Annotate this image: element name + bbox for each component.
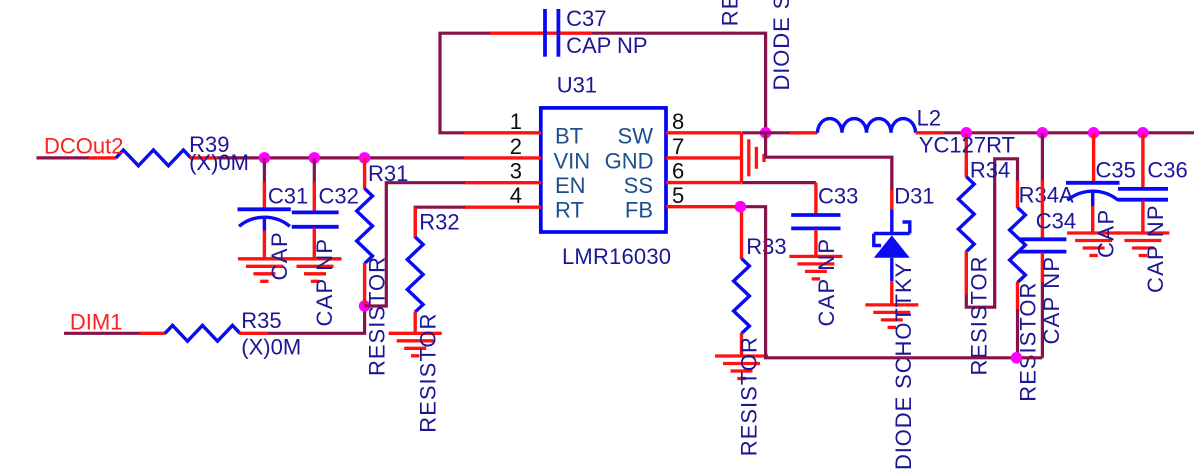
svg-text:D31: D31 — [894, 184, 934, 209]
pin lead: L2 right — [916, 131, 944, 134]
pin lead: L2 left — [790, 131, 818, 134]
pin lead: R35 left pin — [139, 332, 165, 335]
svg-text:VIN: VIN — [554, 148, 591, 173]
svg-text:5: 5 — [672, 183, 684, 208]
pin lead: R34 bottom — [965, 251, 968, 295]
svg-text:CAP NP: CAP NP — [566, 33, 648, 58]
svg-text:8: 8 — [672, 109, 684, 134]
capacitor C32 plates — [292, 210, 339, 214]
resistor R39 zigzag — [116, 150, 191, 166]
svg-text:C36: C36 — [1147, 157, 1187, 182]
svg-text:RESISTOR: RESISTOR — [718, 0, 743, 26]
svg-text:EN: EN — [555, 173, 586, 198]
wire: FB dot right and down to bottom rail — [740, 207, 1042, 358]
junction dot: bottom rail / R34A — [1011, 352, 1023, 364]
wire: C34 stub from rail — [1041, 133, 1044, 181]
pin lead: C36 bottom — [1141, 201, 1144, 232]
junction dot: rail / C35 — [1088, 127, 1100, 139]
svg-text:YC127RT: YC127RT — [919, 133, 1015, 158]
svg-text:C34: C34 — [1036, 209, 1076, 234]
wire: vertical from BT pin up to C37 rail — [440, 33, 491, 133]
svg-text:CAP: CAP — [1094, 208, 1119, 258]
svg-text:GND: GND — [605, 148, 654, 173]
pin lead: pin 4 RT — [464, 205, 541, 208]
ground symbol for D31 — [865, 305, 918, 328]
pin lead: pin 2 VIN — [464, 156, 541, 159]
svg-text:CAP: CAP — [267, 231, 292, 281]
pin lead: C31 top — [263, 182, 266, 209]
svg-text:BT: BT — [555, 123, 583, 148]
pin lead: D31 anode — [890, 281, 893, 304]
junction dot: FB node — [735, 201, 747, 213]
junction dot: VIN rail / C31 — [259, 152, 271, 164]
capacitor C34 plates — [1018, 237, 1066, 241]
resistor R34 zigzag — [958, 177, 974, 252]
wire: C32 stub from rail — [313, 158, 316, 184]
pin lead: C34 top — [1041, 180, 1044, 238]
svg-text:C32: C32 — [319, 184, 359, 209]
pin lead: R35 right pin — [239, 332, 267, 335]
svg-text:R34A: R34A — [1019, 183, 1074, 208]
wire: output rail right of L2 — [943, 131, 1194, 134]
junction dot: SW node — [760, 127, 772, 139]
svg-text:6: 6 — [672, 159, 684, 184]
resistor R33 zigzag — [734, 259, 750, 334]
wire: C34 bottom to rail end — [1041, 282, 1044, 358]
resistor R34A zigzag — [1010, 208, 1026, 283]
wire: DIM1 stub at y=333 — [64, 332, 140, 335]
junction dot: rail / R34 — [961, 127, 973, 139]
wire: D31 cathode stub — [890, 157, 893, 191]
ground symbol for C35 — [1067, 233, 1120, 256]
pin lead: C34 bottom — [1041, 253, 1044, 283]
capacitor C31 curved plate — [239, 217, 290, 226]
pin lead: pin 7 GND — [666, 156, 741, 159]
capacitor C36 plates — [1118, 187, 1168, 191]
op-amp/IC U31 box — [541, 108, 666, 232]
svg-text:7: 7 — [672, 134, 684, 159]
pin lead: R31 bottom — [363, 263, 366, 306]
pin lead: C35 top — [1092, 134, 1095, 184]
junction dot: rail / C36 — [1137, 127, 1149, 139]
pin lead: R31 top — [363, 158, 366, 189]
capacitor C35 curved plate — [1067, 191, 1118, 200]
wire: C31 stub from rail — [263, 158, 266, 184]
wire: DCOut2 stub at y=158 — [37, 156, 90, 159]
wire: EN pin to R31 bottom — [365, 183, 465, 306]
pin lead: pin 1 BT — [464, 131, 541, 134]
svg-text:R35: R35 — [241, 308, 281, 333]
pin lead: R33 bottom — [740, 333, 743, 355]
svg-text:C33: C33 — [818, 184, 858, 209]
wire: SS pin to C33 — [742, 181, 816, 184]
diode D31 (schottky, cathode up) — [874, 209, 910, 281]
ground symbol for C31 — [238, 259, 291, 282]
pin lead: C32 top — [313, 183, 316, 212]
svg-text:(X)0M: (X)0M — [189, 150, 249, 175]
pin lead: pin 5 FB — [666, 205, 740, 208]
junction dot: R31 bottom / EN / DIM1 — [359, 300, 371, 312]
svg-text:C37: C37 — [566, 6, 606, 31]
wire: pin8 to SW dot — [742, 131, 766, 134]
resistor R31 zigzag — [357, 189, 373, 264]
svg-text:CAP NP: CAP NP — [814, 238, 839, 327]
pin lead: pin 6 SS — [666, 181, 741, 184]
pin lead: R33 top — [740, 207, 743, 259]
pin lead: R32 top — [414, 207, 417, 237]
pin lead: R39 right pin — [190, 156, 217, 159]
svg-text:DIODE SCHOTTKY: DIODE SCHOTTKY — [891, 262, 916, 469]
svg-text:RESISTOR: RESISTOR — [1016, 282, 1041, 402]
wire: RT pin to R32 — [415, 207, 465, 238]
svg-text:(X)0M: (X)0M — [241, 335, 301, 360]
wire: R34 bottom bridge to R34A top — [966, 159, 1017, 307]
svg-text:SW: SW — [618, 123, 654, 148]
capacitor C35 inner stub — [1091, 192, 1094, 207]
svg-text:RT: RT — [555, 198, 584, 223]
wire: SW dot to L2 — [766, 131, 791, 134]
ground symbol at GND pin (rotated, bars vertical) — [742, 132, 765, 182]
pin lead: R34A top — [1016, 181, 1019, 209]
ground symbol for R33 — [715, 356, 768, 379]
ground symbol for C36 — [1116, 233, 1169, 256]
svg-text:DIM1: DIM1 — [70, 309, 123, 334]
ground symbol for C32 — [289, 259, 342, 282]
svg-text:RESISTOR: RESISTOR — [737, 336, 762, 456]
wire: from R35 to R31 bottom column — [267, 306, 364, 333]
svg-text:DIODE SCHOTTKY: DIODE SCHOTTKY — [769, 0, 794, 91]
svg-text:CAP NP: CAP NP — [1143, 204, 1168, 293]
svg-text:CAP NP: CAP NP — [1039, 256, 1064, 345]
svg-text:C35: C35 — [1096, 157, 1136, 182]
pin lead: C33 bottom — [814, 229, 817, 255]
pin lead: R34 top — [965, 134, 968, 177]
pin lead: C36 top — [1141, 134, 1144, 188]
svg-text:R32: R32 — [419, 210, 459, 235]
svg-text:CAP NP: CAP NP — [312, 238, 337, 327]
capacitor C31 top plate — [238, 207, 291, 211]
capacitor C33 plates — [791, 213, 840, 217]
pin lead: C37 left pin (red through plates) — [490, 32, 591, 35]
pin lead: C31 bottom — [263, 231, 266, 259]
svg-text:RESISTOR: RESISTOR — [416, 313, 441, 433]
svg-text:R34: R34 — [970, 158, 1010, 183]
svg-text:2: 2 — [510, 134, 522, 159]
svg-text:LMR16030: LMR16030 — [562, 244, 671, 269]
svg-text:FB: FB — [625, 198, 653, 223]
capacitor C31 inner stub — [263, 219, 266, 232]
resistor R35 zigzag — [165, 325, 240, 341]
inductor L2 — [818, 119, 916, 133]
wire: R34A bottom to rail dot — [1016, 309, 1019, 358]
capacitor C35 top plate — [1066, 181, 1120, 185]
svg-text:DCOut2: DCOut2 — [44, 133, 123, 158]
pin lead: C33 top — [814, 183, 817, 214]
svg-text:U31: U31 — [557, 72, 597, 97]
svg-text:C31: C31 — [268, 184, 308, 209]
svg-text:1: 1 — [510, 109, 522, 134]
pin lead: D31 cathode — [890, 190, 893, 209]
ground symbol for R32 — [389, 333, 442, 356]
pin lead: R34A bottom — [1016, 282, 1019, 310]
capacitor C37 plates — [543, 9, 547, 57]
junction dot: VIN rail / C32 — [309, 152, 321, 164]
svg-text:L2: L2 — [917, 106, 941, 131]
wire: SW dot down and right to D31 — [766, 133, 892, 191]
pin lead: C32 bottom — [313, 228, 316, 258]
wire: VIN rail from R39 to pin2 — [217, 156, 465, 159]
svg-text:3: 3 — [510, 159, 522, 184]
pin lead: pin 8 SW — [666, 131, 741, 134]
pin lead: R39 left pin — [89, 156, 117, 159]
svg-text:SS: SS — [624, 173, 653, 198]
wire: C37 right to SW node vertical — [592, 33, 766, 133]
pin lead: pin 3 EN — [464, 181, 541, 184]
resistor R32 zigzag — [407, 237, 423, 312]
ground symbol for C33 — [789, 256, 842, 279]
junction dot: VIN rail / R31 — [359, 152, 371, 164]
junction dot: rail / C34 — [1037, 127, 1049, 139]
pin lead: R32 bottom — [414, 312, 417, 332]
svg-text:4: 4 — [510, 183, 522, 208]
pin lead: C35 bottom — [1091, 206, 1094, 232]
